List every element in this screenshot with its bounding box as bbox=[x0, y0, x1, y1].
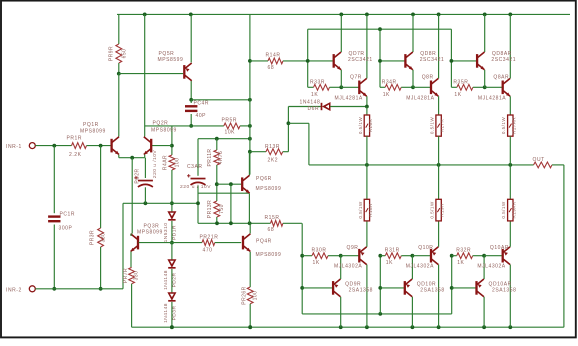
svg-text:PQ2R: PQ2R bbox=[153, 121, 169, 127]
svg-text:2SC3421: 2SC3421 bbox=[491, 57, 516, 63]
svg-text:MPS8099: MPS8099 bbox=[256, 186, 282, 192]
svg-text:1N4148: 1N4148 bbox=[300, 100, 321, 106]
svg-text:1K: 1K bbox=[383, 92, 390, 98]
svg-text:MPS8099: MPS8099 bbox=[80, 128, 106, 134]
svg-text:10K: 10K bbox=[225, 130, 236, 136]
svg-text:PR5R: PR5R bbox=[222, 117, 238, 123]
svg-text:2K2: 2K2 bbox=[268, 158, 279, 164]
svg-text:MJL4302A: MJL4302A bbox=[406, 264, 434, 270]
svg-text:PR3R: PR3R bbox=[90, 230, 96, 245]
svg-text:2SA1358: 2SA1358 bbox=[349, 288, 373, 294]
svg-text:R34R: R34R bbox=[382, 80, 397, 86]
svg-text:R14R: R14R bbox=[266, 53, 281, 59]
svg-text:MJL4281A: MJL4281A bbox=[406, 96, 434, 102]
svg-text:D6R: D6R bbox=[308, 106, 320, 112]
svg-text:0.5/1W: 0.5/1W bbox=[430, 201, 435, 218]
svg-text:R19AR: R19AR bbox=[511, 201, 516, 218]
svg-text:750: 750 bbox=[219, 204, 225, 214]
svg-text:MJL4302A: MJL4302A bbox=[334, 264, 362, 270]
svg-text:220 u / 10V: 220 u / 10V bbox=[180, 184, 211, 190]
svg-text:PC4R: PC4R bbox=[194, 101, 210, 107]
svg-text:1N5310: 1N5310 bbox=[163, 223, 169, 243]
svg-text:Q7R: Q7R bbox=[350, 75, 362, 81]
svg-text:R15R: R15R bbox=[265, 215, 280, 221]
svg-text:INR-1: INR-1 bbox=[6, 144, 22, 150]
svg-text:650: 650 bbox=[122, 49, 128, 59]
svg-text:1N4148: 1N4148 bbox=[163, 270, 169, 290]
svg-text:R17AR: R17AR bbox=[511, 117, 516, 134]
svg-text:PQ6R: PQ6R bbox=[256, 176, 272, 182]
svg-text:2SC3421: 2SC3421 bbox=[348, 57, 373, 63]
svg-text:PC2R: PC2R bbox=[134, 168, 140, 183]
svg-text:1K: 1K bbox=[454, 92, 461, 98]
svg-text:PR11R: PR11R bbox=[207, 149, 213, 167]
svg-text:INR-2: INR-2 bbox=[6, 288, 22, 294]
svg-text:R31R: R31R bbox=[385, 248, 400, 254]
svg-text:1K: 1K bbox=[311, 92, 318, 98]
svg-text:40P: 40P bbox=[196, 113, 207, 119]
svg-text:Q10R: Q10R bbox=[418, 245, 433, 251]
svg-text:PR9R: PR9R bbox=[109, 46, 115, 61]
svg-text:MPS8099: MPS8099 bbox=[137, 229, 163, 235]
svg-text:R17R: R17R bbox=[440, 118, 445, 132]
svg-text:2SC3421: 2SC3421 bbox=[420, 57, 445, 63]
svg-text:Q9R: Q9R bbox=[347, 245, 359, 251]
svg-text:0.5/1W: 0.5/1W bbox=[501, 201, 506, 218]
svg-text:R4AR: R4AR bbox=[162, 155, 168, 170]
svg-text:0.5/1W: 0.5/1W bbox=[501, 117, 506, 134]
svg-text:1K: 1K bbox=[386, 260, 393, 266]
svg-text:R35R: R35R bbox=[453, 80, 468, 86]
svg-text:OUT: OUT bbox=[533, 157, 545, 163]
svg-text:0.5/1W: 0.5/1W bbox=[430, 117, 435, 134]
svg-text:R19R: R19R bbox=[440, 203, 445, 217]
svg-text:PR1R: PR1R bbox=[67, 136, 83, 142]
svg-text:MPS8099: MPS8099 bbox=[151, 127, 177, 133]
svg-text:100: 100 bbox=[253, 291, 259, 301]
svg-text:R18R: R18R bbox=[368, 203, 373, 217]
svg-text:R16R: R16R bbox=[368, 118, 373, 132]
svg-text:MPS8099: MPS8099 bbox=[256, 252, 282, 258]
svg-text:2SA1358: 2SA1358 bbox=[492, 288, 516, 294]
svg-text:MPS8599: MPS8599 bbox=[158, 57, 184, 63]
svg-text:R32R: R32R bbox=[456, 248, 471, 254]
svg-text:PR21R: PR21R bbox=[200, 235, 219, 241]
svg-text:300P: 300P bbox=[59, 226, 73, 232]
svg-text:PC1R: PC1R bbox=[60, 212, 76, 218]
svg-text:1K: 1K bbox=[457, 260, 464, 266]
svg-text:PD2R: PD2R bbox=[172, 273, 178, 288]
svg-text:0.5/1W: 0.5/1W bbox=[358, 201, 363, 218]
svg-text:MJL4281A: MJL4281A bbox=[335, 96, 363, 102]
svg-text:2.2K: 2.2K bbox=[69, 152, 82, 158]
svg-text:MJL4302A: MJL4302A bbox=[477, 264, 505, 270]
svg-text:PR26R: PR26R bbox=[242, 286, 248, 304]
svg-text:PD1R: PD1R bbox=[172, 225, 178, 240]
svg-text:0.5/1W: 0.5/1W bbox=[358, 117, 363, 134]
svg-text:2SA1358: 2SA1358 bbox=[420, 288, 444, 294]
svg-text:Q8R: Q8R bbox=[422, 75, 434, 81]
svg-text:PR7R: PR7R bbox=[123, 268, 129, 283]
svg-text:220 u /10V: 220 u /10V bbox=[152, 150, 158, 178]
svg-text:PQ1R: PQ1R bbox=[83, 122, 99, 128]
svg-text:R13R: R13R bbox=[265, 144, 280, 150]
svg-text:330: 330 bbox=[134, 271, 140, 281]
svg-text:PD3R: PD3R bbox=[172, 306, 178, 321]
svg-text:4K75: 4K75 bbox=[218, 151, 224, 164]
svg-text:Q8AR: Q8AR bbox=[493, 75, 509, 81]
svg-text:PQ5R: PQ5R bbox=[159, 51, 175, 57]
svg-text:Q10AR: Q10AR bbox=[490, 245, 509, 251]
svg-text:QD8AR: QD8AR bbox=[492, 51, 512, 57]
svg-text:QD8R: QD8R bbox=[420, 51, 436, 57]
svg-text:1K: 1K bbox=[313, 260, 320, 266]
svg-text:C3AR: C3AR bbox=[187, 164, 203, 170]
svg-text:68: 68 bbox=[268, 227, 275, 233]
svg-text:68: 68 bbox=[268, 65, 275, 71]
svg-text:QD7R: QD7R bbox=[349, 51, 365, 57]
svg-text:470: 470 bbox=[203, 247, 213, 253]
svg-text:PR13R: PR13R bbox=[207, 200, 213, 218]
svg-text:PQ4R: PQ4R bbox=[256, 238, 272, 244]
svg-text:330: 330 bbox=[101, 233, 107, 243]
svg-text:MJL4281A: MJL4281A bbox=[478, 96, 506, 102]
svg-text:100: 100 bbox=[175, 158, 181, 168]
svg-text:R33R: R33R bbox=[310, 80, 325, 86]
svg-text:R30R: R30R bbox=[312, 248, 327, 254]
svg-text:1N4148: 1N4148 bbox=[163, 303, 169, 323]
